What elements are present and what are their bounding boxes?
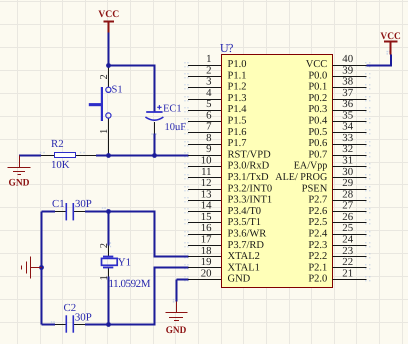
svg-text:5: 5 — [206, 98, 211, 110]
svg-text:ALE/ PROG: ALE/ PROG — [275, 172, 327, 183]
svg-text:P3.6/WR: P3.6/WR — [228, 229, 267, 240]
svg-text:31: 31 — [342, 155, 353, 167]
svg-text:23: 23 — [342, 245, 353, 257]
svg-text:13: 13 — [201, 188, 212, 200]
svg-text:16: 16 — [201, 222, 212, 234]
svg-text:P1.5: P1.5 — [228, 116, 247, 127]
svg-text:P1.2: P1.2 — [228, 82, 247, 93]
svg-text:VCC: VCC — [98, 9, 119, 20]
svg-text:27: 27 — [342, 200, 353, 212]
svg-text:8: 8 — [206, 132, 211, 144]
svg-text:10: 10 — [201, 155, 212, 167]
svg-text:30P: 30P — [75, 312, 92, 324]
svg-text:25: 25 — [342, 222, 353, 234]
svg-text:4: 4 — [206, 87, 212, 99]
svg-text:33: 33 — [342, 132, 353, 144]
svg-text:EC1: EC1 — [163, 104, 182, 115]
svg-text:1: 1 — [99, 129, 110, 134]
svg-text:PSEN: PSEN — [302, 183, 328, 194]
svg-text:1: 1 — [99, 275, 110, 280]
svg-text:2: 2 — [99, 243, 110, 248]
svg-text:29: 29 — [342, 177, 353, 189]
svg-text:VCC: VCC — [380, 31, 400, 42]
svg-text:P3.7/RD: P3.7/RD — [228, 240, 265, 251]
svg-text:EA/Vpp: EA/Vpp — [294, 161, 328, 172]
svg-text:35: 35 — [342, 109, 353, 121]
svg-text:38: 38 — [342, 76, 353, 88]
svg-text:R2: R2 — [51, 138, 64, 150]
svg-text:28: 28 — [342, 188, 353, 200]
svg-text:P1.3: P1.3 — [228, 93, 247, 104]
svg-text:GND: GND — [9, 178, 30, 189]
svg-text:24: 24 — [342, 234, 353, 246]
svg-text:22: 22 — [342, 256, 353, 268]
svg-text:P3.2/INT0: P3.2/INT0 — [228, 183, 273, 194]
svg-text:S1: S1 — [112, 85, 123, 96]
svg-text:15: 15 — [201, 211, 212, 223]
svg-text:39: 39 — [342, 64, 353, 76]
svg-text:P1.4: P1.4 — [228, 104, 248, 115]
svg-text:P3.1/TxD: P3.1/TxD — [228, 172, 270, 183]
svg-text:34: 34 — [342, 121, 353, 133]
svg-text:7: 7 — [206, 121, 212, 133]
svg-text:2: 2 — [99, 74, 110, 79]
svg-text:Y1: Y1 — [118, 257, 131, 269]
svg-text:P2.1: P2.1 — [308, 262, 327, 273]
svg-text:P1.6: P1.6 — [228, 127, 247, 138]
svg-text:U?: U? — [220, 41, 234, 55]
svg-text:P0.3: P0.3 — [308, 104, 327, 115]
svg-text:P2.2: P2.2 — [308, 251, 327, 262]
svg-text:P3.5/T1: P3.5/T1 — [228, 217, 262, 228]
svg-text:21: 21 — [342, 267, 353, 279]
svg-text:P2.4: P2.4 — [308, 229, 328, 240]
svg-text:P0.0: P0.0 — [308, 70, 327, 81]
svg-text:30P: 30P — [75, 198, 92, 210]
svg-text:11: 11 — [201, 166, 211, 178]
svg-text:XTAL1: XTAL1 — [228, 262, 260, 273]
svg-text:14: 14 — [201, 200, 212, 212]
svg-text:40: 40 — [342, 53, 353, 65]
svg-text:32: 32 — [342, 143, 353, 155]
svg-text:GND: GND — [166, 325, 187, 336]
svg-text:6: 6 — [206, 109, 212, 121]
svg-text:P1.0: P1.0 — [228, 59, 247, 70]
svg-text:36: 36 — [342, 98, 353, 110]
svg-text:30: 30 — [342, 166, 353, 178]
svg-text:19: 19 — [201, 256, 212, 268]
svg-text:12: 12 — [201, 177, 212, 189]
svg-text:1: 1 — [206, 53, 211, 65]
svg-text:P1.7: P1.7 — [228, 138, 247, 149]
svg-text:XTAL2: XTAL2 — [228, 251, 260, 262]
svg-text:P3.0/RxD: P3.0/RxD — [228, 161, 270, 172]
svg-text:20: 20 — [201, 267, 212, 279]
svg-text:3: 3 — [206, 76, 211, 88]
svg-text:P2.0: P2.0 — [308, 274, 327, 285]
svg-text:2: 2 — [206, 64, 211, 76]
svg-text:26: 26 — [342, 211, 353, 223]
svg-text:P2.7: P2.7 — [308, 195, 327, 206]
svg-text:P0.5: P0.5 — [308, 127, 327, 138]
svg-text:P0.4: P0.4 — [308, 116, 328, 127]
svg-text:P3.4/T0: P3.4/T0 — [228, 206, 262, 217]
svg-text:10K: 10K — [51, 159, 70, 171]
svg-text:11.0592M: 11.0592M — [109, 278, 151, 290]
svg-text:P2.3: P2.3 — [308, 240, 327, 251]
svg-text:P3.3/INT1: P3.3/INT1 — [228, 195, 273, 206]
svg-text:P2.6: P2.6 — [308, 206, 327, 217]
svg-text:VCC: VCC — [306, 59, 328, 70]
svg-text:P0.7: P0.7 — [308, 149, 327, 160]
svg-text:GND: GND — [228, 274, 251, 285]
svg-text:P2.5: P2.5 — [308, 217, 327, 228]
svg-text:9: 9 — [206, 143, 211, 155]
svg-text:10uF: 10uF — [165, 122, 187, 133]
svg-text:18: 18 — [201, 245, 212, 257]
svg-text:37: 37 — [342, 87, 353, 99]
svg-text:P0.1: P0.1 — [308, 82, 327, 93]
svg-text:RST/VPD: RST/VPD — [228, 149, 272, 160]
svg-text:C1: C1 — [52, 198, 65, 210]
svg-text:17: 17 — [201, 234, 212, 246]
svg-text:P0.6: P0.6 — [308, 138, 327, 149]
svg-text:P0.2: P0.2 — [308, 93, 327, 104]
svg-text:P1.1: P1.1 — [228, 70, 247, 81]
